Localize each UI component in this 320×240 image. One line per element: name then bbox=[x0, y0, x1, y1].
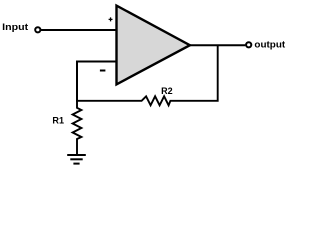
svg-text:R1: R1 bbox=[52, 115, 64, 125]
svg-text:Input: Input bbox=[2, 22, 28, 32]
svg-text:output: output bbox=[254, 39, 285, 49]
svg-text:R2: R2 bbox=[161, 86, 173, 96]
